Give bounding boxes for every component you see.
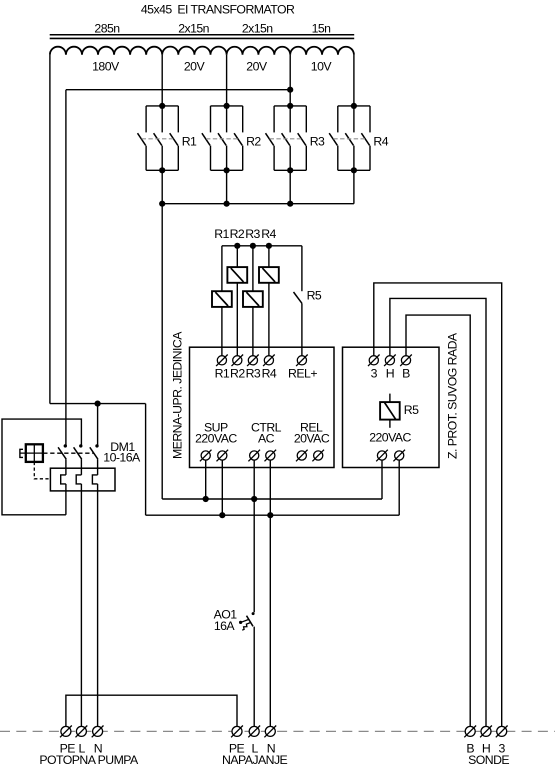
wire: transformer tap 1 down to relay R1	[161, 55, 163, 106]
svg-text:R2: R2	[230, 367, 245, 381]
svg-text:16A: 16A	[214, 619, 236, 633]
svg-text:MERNA-UPR. JEDINICA: MERNA-UPR. JEDINICA	[171, 331, 185, 459]
breaker DM1 pole 1 contact	[58, 444, 67, 491]
relay contact R2 (3-pole)	[202, 103, 262, 174]
wire: coil line R2 down to terminal	[236, 246, 238, 360]
fuse F4 (box with diagonal) on coil line R4	[259, 267, 279, 283]
svg-text:3: 3	[371, 367, 378, 381]
wire: relay R1 down to bus	[161, 170, 163, 203]
wire: relay R4 down to bus	[353, 170, 355, 203]
terminal R2 on U1	[233, 356, 242, 365]
relay contact R1 (3-pole)	[138, 103, 198, 174]
terminal R4 on U1	[264, 356, 273, 365]
terminal REL+ on U1	[297, 356, 306, 365]
wire: coil line R3 down to terminal	[252, 246, 254, 360]
terminal 220VAC-L on U2	[377, 451, 386, 460]
svg-text:REL+: REL+	[288, 367, 317, 381]
svg-text:10V: 10V	[311, 59, 333, 73]
svg-text:R5: R5	[307, 288, 322, 302]
svg-text:R4: R4	[261, 227, 276, 241]
actuator E (emergency handle) of DM1	[20, 444, 43, 462]
wire: relay R2 down to bus	[226, 170, 228, 203]
svg-text:10-16A: 10-16A	[103, 450, 141, 464]
node: rail to R2 coil	[234, 243, 240, 249]
terminal SUP-L on U1	[201, 451, 210, 460]
wire: transformer tap 4 down to relay R4	[353, 55, 355, 106]
wire: DM1 pole2 down to pump L	[80, 491, 82, 732]
wire: terminal 3 up and over to sonde 3	[374, 283, 502, 732]
svg-text:H: H	[386, 367, 394, 381]
wire: DM1 pole3 down to pump N	[97, 491, 99, 732]
terminal SUP-R on U1	[218, 451, 227, 460]
terminal REL-L on U1	[297, 451, 306, 460]
wire: relay R3 down to bus	[289, 170, 291, 203]
switch contact R5 (to REL+)	[294, 292, 302, 303]
wire: terminal B up and over to sonde B	[406, 315, 470, 731]
breaker DM1 pole 2 contact	[74, 444, 83, 491]
wire: coil line R1 down to terminal	[221, 246, 223, 360]
node: rail to R4 coil	[266, 243, 272, 249]
terminal CTRL-L on U1	[250, 451, 259, 460]
node: bus at R2	[224, 201, 230, 207]
wire: AO1 down to napajanje L	[253, 627, 255, 732]
wire: bus 2 (neutral rail)	[146, 514, 400, 516]
transformer T1 winding coil	[50, 47, 354, 55]
wire: drop to DM1 pole 1	[65, 90, 67, 446]
dashed mechanical link DM1	[43, 452, 93, 454]
wire: R5 switch down to REL+ terminal	[301, 303, 303, 360]
svg-text:Z. PROT. SUVOG RADA: Z. PROT. SUVOG RADA	[446, 332, 460, 459]
wire: transformer tap 3 down to relay R3	[289, 55, 291, 106]
svg-text:2x15n: 2x15n	[178, 21, 209, 35]
wire: horizontal run at y=403	[50, 403, 146, 405]
relay coil R5 (box with diagonal)	[380, 394, 419, 428]
terminal pump N	[93, 726, 103, 736]
svg-text:NAPAJANJE: NAPAJANJE	[222, 753, 288, 767]
terminal REL-R on U1	[314, 451, 323, 460]
wire: DM1 pole1 bottom stub	[65, 491, 67, 515]
terminal pump L	[76, 726, 86, 736]
terminal B on U2	[401, 356, 410, 365]
terminal supply L	[249, 726, 259, 736]
transformer T1 core (double line)	[50, 34, 355, 36]
wire: transformer tap 2 down to relay R2	[226, 55, 228, 106]
terminal 3 on U2	[369, 356, 378, 365]
svg-text:45x45 EI TRANSFORMATOR: 45x45 EI TRANSFORMATOR	[141, 3, 295, 17]
terminal sonde B	[465, 726, 475, 736]
node: rail to R3 coil	[250, 243, 256, 249]
terminal supply PE	[232, 726, 242, 736]
wire: relay collect bus	[162, 203, 354, 205]
wire: PE link pump to supply	[66, 695, 237, 731]
node: bus2 to CTRL right	[267, 512, 273, 518]
dashed boundary line	[0, 730, 555, 732]
terminal R1 on U1	[217, 356, 226, 365]
wire: drop to DM1 pole 3	[97, 404, 99, 446]
wire: DM1 loop pole1 out, around left, to pole2 in	[2, 419, 81, 515]
node: junction feeding DM1 pole 3	[95, 401, 101, 407]
fuse F2 (box with diagonal) on coil line R2	[227, 267, 247, 283]
wire: bus 1 (live rail)	[162, 498, 382, 500]
svg-text:R1: R1	[182, 134, 197, 148]
svg-text:285n: 285n	[94, 21, 120, 35]
svg-text:R4: R4	[373, 134, 388, 148]
wire: transformer left end down left side	[49, 55, 51, 404]
svg-text:15n: 15n	[312, 21, 332, 35]
svg-text:R1: R1	[215, 367, 230, 381]
wire: U2 220VAC left to bus1	[381, 456, 383, 500]
svg-text:R2: R2	[230, 227, 245, 241]
svg-text:R3: R3	[246, 367, 261, 381]
svg-text:180V: 180V	[92, 59, 120, 73]
terminal supply N	[265, 726, 275, 736]
wire: U2 220VAC right to bus2	[398, 456, 400, 516]
node: bus1 to SUP left	[203, 496, 209, 502]
terminal sonde 3	[497, 726, 507, 736]
terminal pump PE	[61, 726, 71, 736]
node: bus1 to CTRL left	[251, 496, 257, 502]
relay contact R4 (3-pole)	[329, 103, 389, 174]
breaker AO1 16A	[239, 612, 255, 630]
control unit U1 box MERNA-UPR. JEDINICA	[190, 347, 335, 467]
wire: SUP left to bus1	[205, 456, 207, 500]
wire: terminal H up and over to sonde H	[390, 298, 486, 731]
relay contact R3 (3-pole)	[266, 103, 326, 174]
terminal R3 on U1	[248, 356, 257, 365]
wire: down to lower bus 2	[145, 404, 147, 516]
wire: rail corner down to R5 switch	[301, 246, 303, 291]
wire: relay bus down left of control unit	[161, 204, 163, 499]
terminal H on U2	[385, 356, 394, 365]
svg-text:SONDE: SONDE	[468, 753, 509, 767]
wire: coil line R4 down to terminal	[268, 246, 270, 360]
terminal sonde H	[481, 726, 491, 736]
fuse F3 (box with diagonal) on coil line R3	[243, 291, 263, 307]
svg-text:220VAC: 220VAC	[195, 432, 237, 446]
wire: upper horizontal at y=90	[66, 89, 290, 91]
svg-text:20V: 20V	[246, 59, 268, 73]
svg-text:POTOPNA PUMPA: POTOPNA PUMPA	[39, 753, 139, 767]
fuse F1 (box with diagonal) on coil line R1	[212, 291, 232, 307]
svg-text:R1: R1	[214, 227, 229, 241]
svg-text:R5: R5	[404, 403, 419, 417]
svg-text:20V: 20V	[184, 59, 206, 73]
svg-text:2x15n: 2x15n	[242, 21, 273, 35]
node: bus corner at R1	[159, 201, 165, 207]
dashed link E-handle to thermal block	[34, 462, 50, 479]
svg-text:B: B	[402, 367, 410, 381]
breaker DM1 pole 3 contact	[90, 444, 99, 491]
terminal 220VAC-R on U2	[395, 451, 404, 460]
wire: CTRL left down (to AO1, L)	[253, 456, 255, 613]
wire: CTRL right down (N)	[269, 456, 271, 732]
node: bus at R3	[287, 201, 293, 207]
wire: SUP right to bus2	[221, 456, 223, 516]
svg-text:R3: R3	[310, 134, 325, 148]
node: bus2 to SUP right	[219, 512, 225, 518]
svg-text:AC: AC	[258, 432, 275, 446]
svg-text:220VAC: 220VAC	[369, 431, 411, 445]
svg-text:R2: R2	[246, 134, 261, 148]
breaker DM1 thermal block	[50, 468, 115, 491]
svg-text:20VAC: 20VAC	[294, 432, 330, 446]
wire: coil feed rail	[222, 245, 302, 247]
node: tap junction at 10V winding	[287, 87, 293, 93]
terminal CTRL-R on U1	[266, 451, 275, 460]
svg-text:R4: R4	[262, 367, 277, 381]
dry-run protection unit U2 box	[343, 347, 440, 467]
svg-text:R3: R3	[245, 227, 260, 241]
